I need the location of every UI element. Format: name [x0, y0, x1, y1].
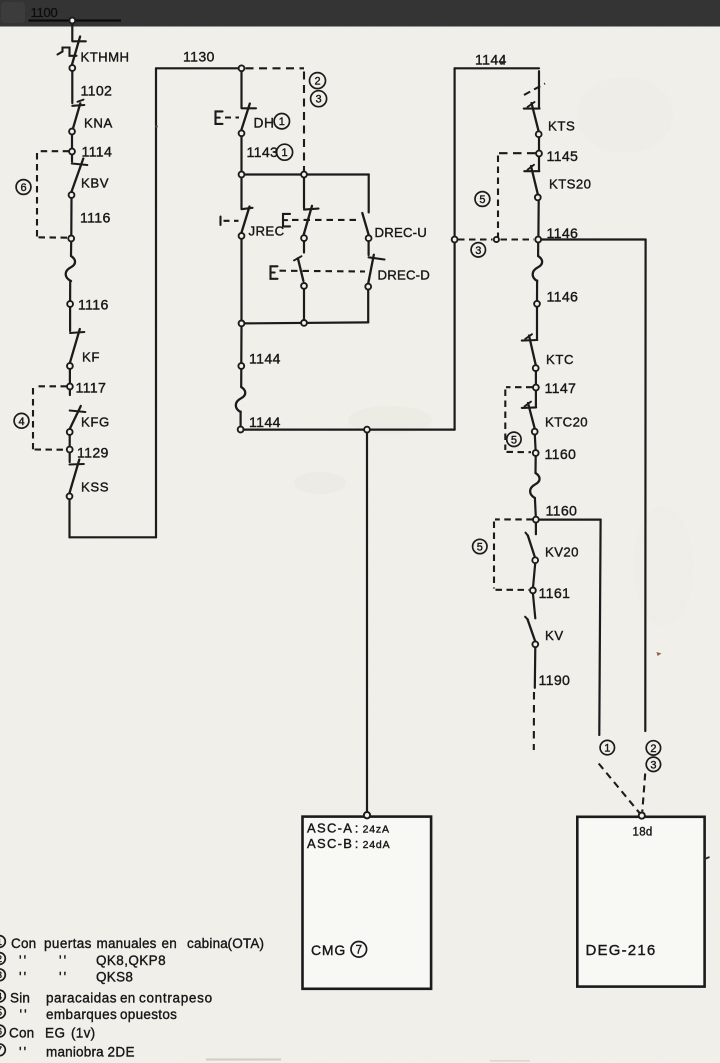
svg-text:18d: 18d: [633, 827, 653, 839]
svg-text:1147: 1147: [545, 381, 577, 397]
svg-text:7: 7: [356, 944, 362, 956]
svg-text:KF: KF: [82, 350, 100, 365]
svg-text:'': '': [59, 969, 68, 984]
svg-text:4: 4: [0, 991, 2, 1002]
svg-text:5: 5: [479, 194, 485, 206]
svg-text:paracaidas: paracaidas: [46, 991, 117, 1006]
svg-text:1144: 1144: [249, 415, 281, 431]
svg-text:(OTA): (OTA): [228, 936, 265, 951]
svg-text:1: 1: [604, 743, 610, 755]
svg-text:'': '': [20, 1007, 29, 1022]
svg-text:1: 1: [279, 116, 285, 128]
svg-text:EG: EG: [45, 1026, 66, 1041]
svg-text:KTHMH: KTHMH: [81, 50, 130, 65]
svg-text:1161: 1161: [539, 586, 571, 602]
svg-text:QK8,QKP8: QK8,QKP8: [96, 953, 166, 968]
svg-text:opuestos: opuestos: [120, 1007, 177, 1022]
svg-text:2: 2: [650, 743, 656, 755]
svg-text:1144: 1144: [249, 352, 281, 368]
svg-text:embarques: embarques: [46, 1007, 117, 1022]
svg-text:KTC: KTC: [546, 352, 574, 367]
svg-text:KBV: KBV: [81, 176, 109, 191]
svg-text:DREC-D: DREC-D: [378, 267, 430, 282]
svg-text:CMG: CMG: [311, 942, 346, 958]
svg-text:'': '': [19, 969, 28, 984]
svg-text:DEG-216: DEG-216: [586, 942, 657, 959]
svg-text:manuales: manuales: [97, 936, 157, 951]
svg-text:1100: 1100: [31, 5, 58, 20]
svg-text:1160: 1160: [546, 504, 578, 520]
svg-text:ASC-A:24zA: ASC-A:24zA: [307, 821, 390, 836]
svg-text:1146: 1146: [547, 226, 579, 242]
svg-text:1116: 1116: [80, 211, 111, 227]
svg-text:KTS: KTS: [548, 119, 575, 134]
svg-text:1143: 1143: [247, 145, 279, 161]
svg-text:'': '': [19, 953, 28, 968]
svg-text:1146: 1146: [547, 290, 579, 306]
svg-text:en: en: [162, 936, 177, 951]
svg-text:2DE: 2DE: [108, 1044, 135, 1059]
svg-text:KFG: KFG: [81, 415, 110, 430]
svg-text:KTC20: KTC20: [545, 415, 588, 430]
svg-text:1: 1: [0, 937, 2, 948]
svg-text:3: 3: [650, 759, 656, 771]
svg-text:7: 7: [0, 1045, 2, 1056]
svg-text:'': '': [59, 953, 68, 968]
svg-text:1117: 1117: [76, 381, 107, 397]
svg-text:en: en: [120, 991, 135, 1006]
svg-text:cabina: cabina: [187, 936, 228, 951]
svg-text:KV20: KV20: [545, 545, 579, 560]
svg-text:KSS: KSS: [81, 480, 109, 495]
svg-text:1160: 1160: [545, 447, 577, 463]
svg-text:DH: DH: [254, 116, 275, 131]
svg-text:4: 4: [18, 416, 24, 428]
svg-text:6: 6: [0, 1026, 2, 1037]
svg-text:QKS8: QKS8: [96, 969, 133, 984]
svg-text:ASC-B:24dA: ASC-B:24dA: [307, 836, 390, 851]
svg-text:3: 3: [475, 245, 481, 257]
svg-text:DREC-U: DREC-U: [375, 225, 427, 240]
svg-text:1190: 1190: [539, 673, 571, 689]
svg-text:2: 2: [314, 76, 320, 88]
svg-text:(1v): (1v): [71, 1026, 95, 1041]
svg-text:1129: 1129: [77, 446, 109, 462]
svg-text:3: 3: [0, 970, 2, 981]
svg-text:KTS20: KTS20: [549, 177, 591, 192]
svg-text:5: 5: [477, 541, 483, 553]
svg-text:puertas: puertas: [44, 936, 92, 951]
svg-text:contrapeso: contrapeso: [139, 991, 213, 1006]
svg-text:KV: KV: [545, 628, 564, 643]
svg-text:3: 3: [316, 94, 322, 106]
svg-text:1144: 1144: [475, 53, 507, 69]
svg-text:1116: 1116: [78, 298, 109, 314]
svg-text:5: 5: [511, 434, 517, 446]
svg-text:KNA: KNA: [84, 116, 113, 131]
svg-text:'': '': [19, 1044, 28, 1059]
svg-text:6: 6: [20, 182, 26, 194]
svg-text:Con: Con: [9, 1026, 34, 1041]
svg-text:maniobra: maniobra: [46, 1044, 104, 1059]
svg-text:1102: 1102: [81, 84, 113, 100]
svg-text:JREC: JREC: [249, 224, 285, 239]
svg-text:2: 2: [0, 954, 2, 965]
svg-text:Con: Con: [11, 936, 36, 951]
svg-text:1145: 1145: [547, 149, 579, 165]
svg-text:1130: 1130: [183, 50, 215, 66]
svg-text:1114: 1114: [82, 145, 113, 161]
svg-text:Sin: Sin: [10, 991, 30, 1006]
svg-text:1: 1: [282, 147, 288, 159]
svg-text:5: 5: [0, 1008, 2, 1019]
